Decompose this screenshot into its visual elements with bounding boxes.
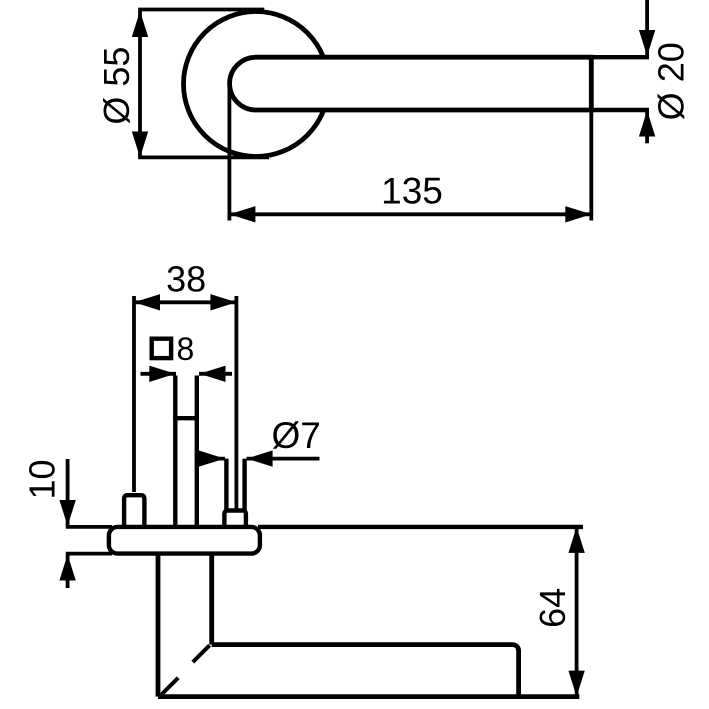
spindle step joint line [173, 416, 199, 420]
10 arrow up [59, 555, 75, 581]
Ø55 dim extension line bottom [138, 155, 269, 159]
64 arrow down [568, 671, 584, 697]
lever handle body (front view stadium) [230, 57, 592, 110]
neck left edge (side view) [156, 554, 161, 697]
Ø7 arrow pointing right [199, 450, 225, 466]
38 dim extension line right [234, 296, 238, 510]
Ø20 arrow up to lever bottom [639, 111, 655, 137]
Ø55 arrow down [132, 132, 148, 158]
10 dimension line lower [66, 555, 70, 589]
bend miter line lower segment [161, 678, 178, 695]
Ø7 dim line right tail [247, 457, 320, 461]
8 dim line right tail [199, 372, 232, 376]
Ø55 dim extension line top [138, 8, 264, 12]
10 dim extension line bottom [66, 552, 112, 556]
8 dim line left tail [141, 372, 177, 376]
10 dimension line upper [66, 459, 70, 526]
screw right edge [242, 459, 246, 511]
rose flange (side view) [109, 527, 260, 554]
spindle left edge [173, 376, 177, 528]
Ø7 arrow pointing left [247, 450, 273, 466]
135 dim extension line left [227, 84, 231, 221]
svg-text:64: 64 [532, 588, 573, 628]
lever top line extension to Ø20 dim [591, 55, 649, 59]
10 dim extension line top [66, 525, 112, 529]
64 label [532, 588, 573, 628]
Ø20 dimension line upper [645, 0, 649, 56]
svg-text:38: 38 [166, 259, 206, 300]
svg-text:Ø7: Ø7 [272, 415, 321, 456]
svg-text:Ø 20: Ø 20 [651, 42, 692, 120]
grip top line with rounded end cap [212, 645, 519, 697]
door face extension line to 64 dim [258, 525, 583, 529]
spindle right edge [195, 376, 199, 528]
38 arrow right [210, 294, 236, 310]
Ø7 dim line left tail [201, 457, 226, 461]
64 dimension line [575, 527, 579, 697]
64 arrow up [568, 527, 584, 553]
Ø20 arrow down to lever top [639, 30, 655, 56]
38 dimension line [134, 300, 236, 304]
10 arrow down [59, 500, 75, 526]
38 arrow left [134, 294, 160, 310]
135 dimension line [229, 212, 591, 216]
Ø55 arrow up [132, 11, 148, 37]
square symbol of □8 label [152, 339, 171, 358]
8 arrow pointing right [149, 366, 175, 382]
38 dim extension line left [132, 296, 136, 492]
right screw boss on rose [224, 511, 246, 528]
Ø20 dimension line lower [645, 111, 649, 144]
Ø55 dimension line [138, 11, 142, 158]
svg-text:Ø 55: Ø 55 [96, 47, 137, 125]
8 arrow pointing left [200, 366, 226, 382]
135 arrow right [565, 206, 591, 222]
rose circle (front view, Ø55) [184, 12, 329, 157]
grip bottom line [158, 694, 579, 699]
lever bottom line extension to Ø20 dim [591, 108, 649, 112]
screw left edge [224, 459, 228, 511]
Ø20 label [651, 42, 692, 120]
svg-text:135: 135 [381, 171, 443, 212]
left screw boss on rose [124, 495, 144, 527]
svg-text:10: 10 [22, 459, 63, 499]
10 label [22, 459, 63, 499]
neck right edge (side view) [209, 554, 214, 645]
Ø55 label [96, 47, 137, 125]
135 arrow left [229, 206, 255, 222]
135 dim extension line right [589, 110, 593, 221]
bend miter line upper segment [193, 645, 210, 662]
svg-text:8: 8 [177, 331, 195, 367]
